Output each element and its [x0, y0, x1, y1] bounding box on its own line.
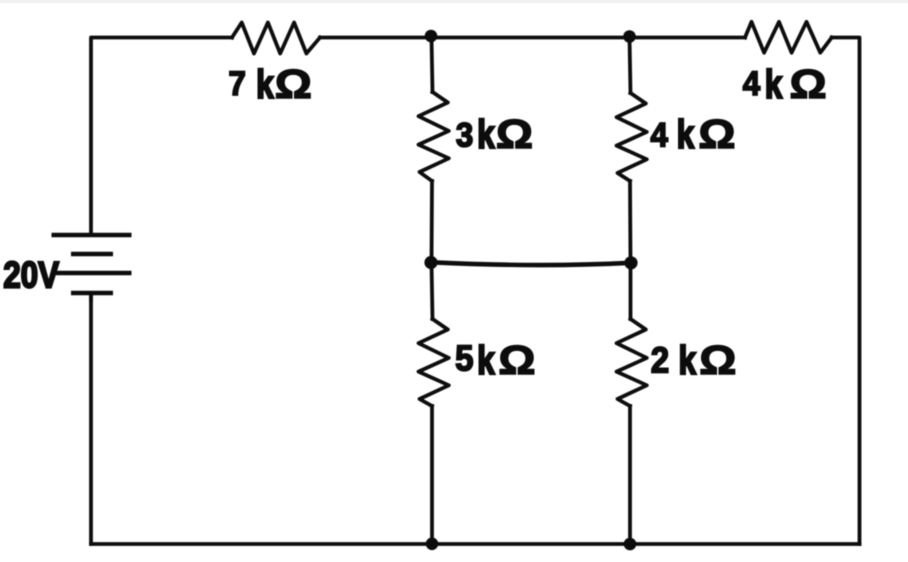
wire node B down to R3: [432, 38, 433, 93]
svg-text:7: 7: [229, 64, 246, 103]
svg-text:Ω: Ω: [790, 61, 827, 107]
node G junction dot (bottom right middle): [624, 538, 637, 551]
label R3 value 3 kOhm: [456, 112, 533, 158]
resistor R1 7 kOhm horizontal: [232, 23, 320, 54]
wire node E down to R6: [629, 263, 633, 319]
wire bridge node D to node E: [432, 262, 631, 265]
wire R6 down to bottom rail: [628, 406, 632, 544]
svg-text:4: 4: [743, 64, 760, 103]
wire battery negative down to bottom rail: [89, 293, 93, 544]
wire node C down to R5: [630, 38, 631, 94]
svg-text:k: k: [765, 62, 782, 107]
svg-text:Ω: Ω: [496, 112, 533, 158]
svg-text:k: k: [477, 338, 494, 383]
resistor R6 2 kOhm vertical: [617, 319, 647, 406]
wire top middle between R1 and node B: [320, 36, 431, 40]
wire bottom rail: [91, 542, 860, 546]
label R2 value 4 kOhm (top right): [743, 61, 827, 107]
svg-text:2: 2: [651, 341, 669, 381]
node C junction dot: [623, 30, 636, 43]
wire top between node B and node C: [431, 36, 630, 40]
svg-text:20V: 20V: [3, 255, 59, 296]
node F junction dot (bottom left middle): [426, 538, 439, 551]
resistor R5 4 kOhm vertical: [617, 93, 647, 181]
svg-text:4: 4: [651, 115, 668, 154]
wire top-left from battery up and across to 7k resistor: [91, 38, 232, 236]
svg-text:Ω: Ω: [699, 337, 736, 383]
svg-text:3: 3: [456, 115, 473, 154]
svg-text:k: k: [677, 113, 694, 158]
svg-text:5: 5: [455, 339, 473, 379]
label 20V: [3, 255, 59, 296]
node B junction dot: [425, 30, 438, 43]
svg-text:k: k: [477, 113, 494, 158]
resistor R2 4 kOhm horizontal top-right: [745, 22, 832, 53]
wire R5 to node E: [628, 181, 632, 263]
resistor R4 5 kOhm vertical: [419, 319, 449, 406]
battery V1 20V: [52, 235, 132, 302]
wire top-right corner down right side: [832, 38, 860, 545]
label R4 value 5 kOhm: [455, 337, 535, 383]
label R5 value 4 kOhm (middle branch): [651, 112, 736, 158]
svg-text:Ω: Ω: [698, 112, 735, 158]
wire R4 down to bottom rail: [430, 406, 434, 544]
node D junction dot: [424, 256, 437, 269]
wire R3 to node D: [430, 181, 434, 263]
wire node D down to R4: [432, 263, 433, 319]
wire top between node C and R2: [630, 36, 745, 40]
resistor R3 3 kOhm vertical: [419, 92, 449, 181]
svg-text:k: k: [256, 62, 273, 107]
svg-text:Ω: Ω: [498, 337, 535, 383]
label R6 value 2 kOhm: [651, 337, 737, 383]
node E junction dot: [624, 256, 637, 269]
svg-text:Ω: Ω: [275, 61, 312, 107]
svg-text:k: k: [679, 338, 696, 383]
label R1 value 7 kOhm: [229, 61, 312, 107]
